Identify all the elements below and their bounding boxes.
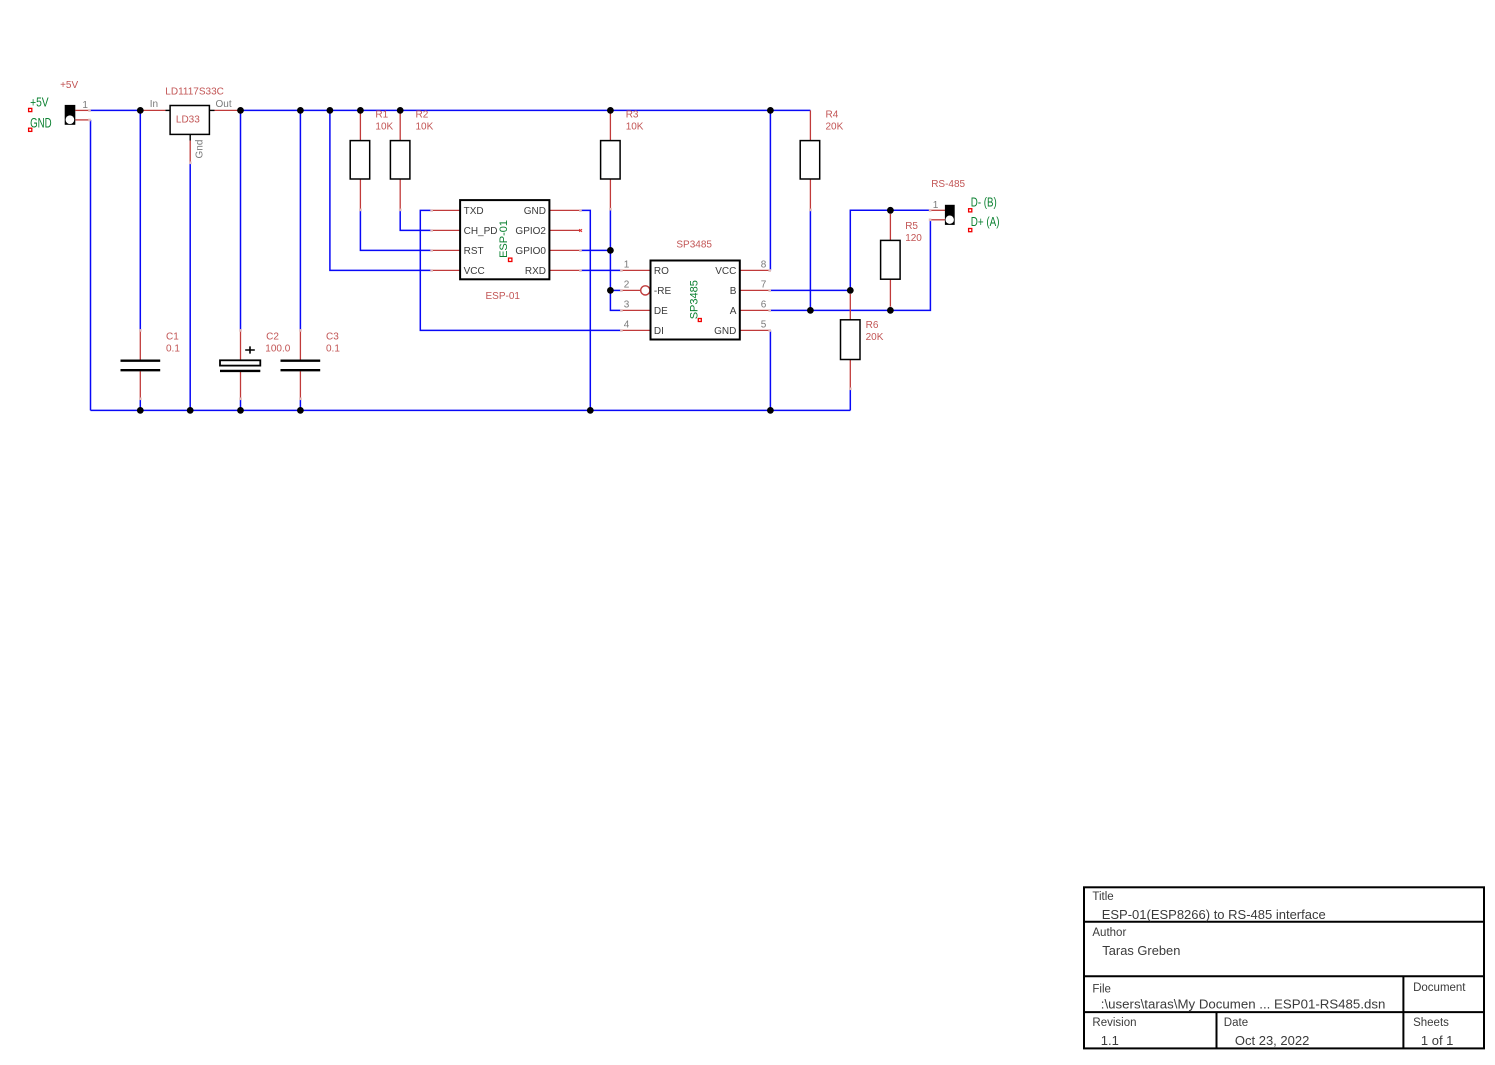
wire R6 bottom to ground rail xyxy=(849,390,851,411)
svg-text:10K: 10K xyxy=(375,122,393,133)
wire C3 bottom lead xyxy=(299,371,301,399)
title block outer frame xyxy=(1084,887,1484,1048)
svg-text:8: 8 xyxy=(761,260,767,271)
svg-text:10K: 10K xyxy=(416,122,434,133)
wire J1 pin1 lead xyxy=(75,109,90,111)
svg-text:RXD: RXD xyxy=(525,266,546,277)
svg-text:R2: R2 xyxy=(416,110,429,121)
svg-text:A: A xyxy=(730,306,737,317)
pin end marker SP B xyxy=(768,289,771,292)
svg-text:GPIO0: GPIO0 xyxy=(515,246,546,257)
svg-text::\users\taras\My Documen ... E: :\users\taras\My Documen ... ESP01-RS485… xyxy=(1101,997,1386,1012)
svg-text:5: 5 xyxy=(761,320,767,331)
wire SP3485 GND pin 5 lead xyxy=(740,329,771,331)
pin end marker LD33 Gnd xyxy=(189,162,192,165)
junction ground rail C3 xyxy=(297,407,304,414)
wire C1 top lead xyxy=(139,330,141,359)
wire C2 top lead xyxy=(240,330,242,360)
IC U3 SP3485 body xyxy=(651,261,740,340)
svg-text:Date: Date xyxy=(1224,1017,1248,1029)
svg-text:10K: 10K xyxy=(626,122,644,133)
pin end marker SP A xyxy=(768,309,771,312)
svg-text:R3: R3 xyxy=(626,110,639,121)
wire C3 bottom stub xyxy=(299,400,301,411)
svg-text:+5V: +5V xyxy=(60,80,78,91)
pin end marker ESP VCC xyxy=(430,269,433,272)
svg-text:LD33: LD33 xyxy=(176,114,200,125)
wire LD33 Gnd down to ground rail xyxy=(189,163,191,410)
svg-text:B: B xyxy=(730,286,737,297)
wire J1 pin2 down to ground rail xyxy=(90,120,92,411)
pin end marker C1a xyxy=(139,329,142,332)
pin end marker SP DI xyxy=(620,329,623,332)
wire ESP RST lead pin xyxy=(432,249,461,251)
wire SP3485 VCC pin 8 lead xyxy=(740,269,771,271)
svg-text:RO: RO xyxy=(654,266,669,277)
wire ESP TXD to SP3485 DI xyxy=(420,210,621,330)
wire C2 top drop xyxy=(240,110,242,330)
svg-text:D+ (A): D+ (A) xyxy=(971,214,1000,229)
pin end marker SP DE xyxy=(620,309,623,312)
svg-text:Author: Author xyxy=(1092,927,1126,939)
net port marker +5V xyxy=(29,108,32,111)
wire RS-485 pin1 lead xyxy=(930,209,945,211)
svg-text:-RE: -RE xyxy=(654,286,672,297)
pin end marker C3b xyxy=(299,398,302,401)
junction GPIO0 node xyxy=(607,247,614,254)
junction A net R5 bottom xyxy=(887,307,894,314)
net port marker D+(A) xyxy=(969,229,972,232)
svg-text:20K: 20K xyxy=(826,122,844,133)
svg-text:LD1117S33C: LD1117S33C xyxy=(165,86,224,97)
connector J1 +5V input xyxy=(65,105,76,125)
wire LD33 Gnd lead xyxy=(189,141,191,164)
svg-text:SP3485: SP3485 xyxy=(676,240,712,251)
wire R2 top lead xyxy=(399,110,401,140)
resistor R3 body xyxy=(601,141,621,179)
svg-text:ESP-01: ESP-01 xyxy=(486,291,521,302)
wire ESP GPIO0 lead pin xyxy=(549,249,580,251)
svg-text:0.1: 0.1 xyxy=(166,343,180,354)
junction top rail at R3 xyxy=(607,107,614,114)
origin marker SP3485 xyxy=(698,319,701,322)
junction B net R6 xyxy=(847,287,854,294)
svg-text:1 of 1: 1 of 1 xyxy=(1421,1033,1454,1048)
wire R4 top lead xyxy=(809,110,811,140)
svg-text:DI: DI xyxy=(654,326,664,337)
wire R1 top lead xyxy=(359,110,361,140)
wire LD33 Out lead xyxy=(215,109,241,111)
pin end marker R1 xyxy=(359,209,362,212)
wire C1 bottom lead xyxy=(139,371,141,399)
resistor R6 body xyxy=(841,320,861,360)
wire R6 top lead xyxy=(849,290,851,319)
svg-text:1: 1 xyxy=(933,200,939,211)
svg-text:R5: R5 xyxy=(905,221,918,232)
svg-text:100.0: 100.0 xyxy=(265,343,290,354)
svg-text:Title: Title xyxy=(1092,891,1113,903)
wire SP3485 DI pin 4 lead xyxy=(621,329,650,331)
unconnected marker x on ESP GPIO2 xyxy=(579,229,582,232)
svg-text:+5V: +5V xyxy=(30,95,49,110)
junction A net R4 xyxy=(807,307,814,314)
wire ground rail bottom xyxy=(91,409,851,411)
junction top rail at C2 xyxy=(237,107,244,114)
pin stub LD33 Out (black) xyxy=(209,109,214,111)
svg-text:20K: 20K xyxy=(866,332,884,343)
svg-text:3: 3 xyxy=(624,300,630,311)
wire SP3485 GND pin5 down to ground rail xyxy=(769,330,771,410)
wire C1 bottom stub xyxy=(139,400,141,411)
junction ground rail SP GND xyxy=(767,407,774,414)
wire SP3485 RO pin 1 lead xyxy=(621,269,650,271)
pin end marker R3 xyxy=(609,208,612,211)
svg-text:R6: R6 xyxy=(866,320,879,331)
svg-text:C1: C1 xyxy=(166,331,179,342)
svg-text:C3: C3 xyxy=(326,331,339,342)
wire R3 bottom down through GPIO0 node to DE xyxy=(610,210,621,311)
inversion bubble on SP3485 -RE pin xyxy=(641,286,650,295)
wire ESP VCC lead pin xyxy=(432,269,461,271)
wire ESP GPIO0 to R3 node xyxy=(581,249,611,251)
wire R5 top lead xyxy=(889,210,891,240)
junction top rail at R2 xyxy=(397,107,404,114)
wire ESP GND lead pin xyxy=(549,209,580,211)
wire SP3485 DE pin 3 lead xyxy=(621,309,650,311)
pin end marker C3a xyxy=(299,329,302,332)
svg-text:C2: C2 xyxy=(266,331,279,342)
svg-text:GPIO2: GPIO2 xyxy=(515,226,546,237)
svg-text:GND: GND xyxy=(30,115,52,130)
junction top rail at C3 xyxy=(297,107,304,114)
svg-text:VCC: VCC xyxy=(715,266,736,277)
wire node to -RE stub xyxy=(610,289,621,291)
svg-text:Out: Out xyxy=(216,99,232,110)
pin end marker C2b xyxy=(239,398,242,401)
svg-text:R4: R4 xyxy=(826,110,839,121)
svg-text:RST: RST xyxy=(464,246,484,257)
wire SP3485 -RE pin 2 lead xyxy=(621,289,640,291)
wire R4 bottom lead xyxy=(809,179,811,210)
svg-text:1: 1 xyxy=(82,100,88,111)
pin end marker C1b xyxy=(139,398,142,401)
pin end marker R4 xyxy=(809,209,812,212)
title block line under Title row xyxy=(1084,921,1484,923)
svg-text:Taras Greben: Taras Greben xyxy=(1102,943,1180,958)
junction ground rail C2 xyxy=(237,407,244,414)
wire R3 top lead xyxy=(609,110,611,140)
wire ESP GND down to ground rail xyxy=(581,210,591,410)
pin end marker ESP GND xyxy=(579,209,582,212)
pin end marker ESP TXD xyxy=(430,209,433,212)
pin end marker RS485-1 xyxy=(929,209,932,212)
pin stub LD33 In (black) xyxy=(166,109,171,111)
wire ESP RXD to SP3485 RO xyxy=(581,269,622,271)
capacitor C3 plates xyxy=(281,361,321,371)
origin marker ESP-01 xyxy=(509,258,512,261)
svg-text:6: 6 xyxy=(761,300,767,311)
pin end marker ESP RST xyxy=(430,249,433,252)
junction top rail at R1 xyxy=(357,107,364,114)
wire R3 bottom lead xyxy=(609,179,611,210)
svg-text:VCC: VCC xyxy=(464,266,485,277)
wire C1 top drop xyxy=(139,110,141,330)
wire ESP RXD lead pin xyxy=(549,269,580,271)
svg-text:GND: GND xyxy=(714,326,736,337)
svg-text:CH_PD: CH_PD xyxy=(464,226,498,237)
wire J1 pin2 lead xyxy=(75,119,90,121)
svg-text:ESP-01(ESP8266) to RS-485 inte: ESP-01(ESP8266) to RS-485 interface xyxy=(1102,907,1326,922)
wire R2 bottom to ESP CH_PD xyxy=(400,210,431,230)
svg-text:DE: DE xyxy=(654,306,668,317)
pin end marker SP -RE xyxy=(620,289,623,292)
pin end marker R5b xyxy=(889,307,892,310)
svg-text:2: 2 xyxy=(624,280,630,291)
svg-text:R1: R1 xyxy=(375,110,388,121)
svg-text:7: 7 xyxy=(761,280,767,291)
junction -RE node xyxy=(607,287,614,294)
pin end marker SP VCC xyxy=(768,269,771,272)
wire ESP TXD lead pin xyxy=(432,209,461,211)
wire B net up and right to RS-485 pin1 xyxy=(850,210,930,290)
svg-text:Revision: Revision xyxy=(1092,1017,1136,1029)
junction top rail at C1 xyxy=(137,107,144,114)
title block line under Author row xyxy=(1084,975,1484,977)
wire C2 bottom lead xyxy=(240,371,242,399)
wire top rail left segment J1 pin1 to LD33 In xyxy=(91,109,141,111)
pin end marker R5a xyxy=(889,212,892,215)
title block divider File/Document xyxy=(1402,976,1404,1048)
title block divider Revision/Date xyxy=(1216,1012,1218,1048)
junction top rail at SP VCC drop xyxy=(767,107,774,114)
junction ground rail LD33 Gnd xyxy=(187,407,194,414)
resistor R5 body xyxy=(881,240,901,279)
junction ground rail ESP GND xyxy=(587,407,594,414)
svg-text:Gnd: Gnd xyxy=(194,140,205,159)
pin end marker ESP CH_PD xyxy=(430,229,433,232)
wire R1 bottom lead xyxy=(359,179,361,210)
regulator U1 LD33 body xyxy=(170,106,209,135)
wire RS-485 pin2 lead xyxy=(930,219,945,221)
wire SP3485 A pin6 to RS-485 pin2 xyxy=(770,220,930,311)
svg-text:1: 1 xyxy=(624,260,630,271)
pin end marker C2a xyxy=(239,329,242,332)
pin end marker SP GND xyxy=(768,329,771,332)
pin end marker J1-2 xyxy=(88,119,91,122)
svg-text:ESP-01: ESP-01 xyxy=(498,220,510,258)
svg-text:4: 4 xyxy=(624,320,630,331)
capacitor C1 plates xyxy=(121,361,161,371)
pin end marker R6a xyxy=(849,292,852,295)
pin end marker J1-1 xyxy=(88,109,91,112)
svg-text:Document: Document xyxy=(1413,982,1466,994)
svg-text:File: File xyxy=(1092,984,1111,996)
resistor R1 body xyxy=(350,141,370,179)
wire SP3485 A pin 6 lead xyxy=(740,309,771,311)
wire R5 bottom lead xyxy=(889,279,891,310)
wire C3 top drop xyxy=(299,110,301,330)
wire +3V3 to ESP VCC xyxy=(330,110,432,270)
IC U2 ESP-01 body xyxy=(460,200,549,279)
connector RS-485 output xyxy=(945,205,955,225)
svg-text:In: In xyxy=(150,99,158,110)
svg-text:0.1: 0.1 xyxy=(326,343,340,354)
svg-text:TXD: TXD xyxy=(464,206,484,217)
wire C2 bottom stub xyxy=(240,400,242,411)
wire ESP GPIO2 lead pin (unconnected) xyxy=(549,229,580,231)
wire R2 bottom lead xyxy=(399,179,401,210)
net port marker GND xyxy=(29,128,32,131)
wire VCC3V3 drop to SP3485 VCC pin8 xyxy=(769,110,771,270)
pin end marker ESP GPIO0 xyxy=(579,249,582,252)
pin end marker RS485-2 xyxy=(929,219,932,222)
wire top rail right segment LD33 Out to R4 xyxy=(241,109,811,111)
svg-text:GND: GND xyxy=(524,206,546,217)
wire R1 bottom to ESP RST xyxy=(360,210,431,250)
net port marker D-(B) xyxy=(969,209,972,212)
resistor R4 body xyxy=(800,141,820,179)
pin end marker ESP RXD xyxy=(579,269,582,272)
junction B net R5 top xyxy=(887,207,894,214)
wire SP3485 B pin7 to node xyxy=(770,289,850,291)
pin stub LD33 Gnd (black) xyxy=(189,134,191,140)
svg-text:1.1: 1.1 xyxy=(1101,1033,1119,1048)
svg-text:Sheets: Sheets xyxy=(1413,1017,1449,1029)
svg-text:RS-485: RS-485 xyxy=(931,179,965,190)
wire ESP CH_PD lead pin xyxy=(432,229,461,231)
resistor R2 body xyxy=(390,141,410,179)
svg-text:SP3485: SP3485 xyxy=(689,280,701,319)
title block line under File row xyxy=(1084,1011,1484,1013)
junction top rail at ESP VCC drop xyxy=(327,107,334,114)
wire R6 bottom lead xyxy=(849,360,851,390)
svg-text:D- (B): D- (B) xyxy=(971,194,997,209)
wire C3 top lead xyxy=(299,330,301,359)
pin end marker SP RO xyxy=(620,269,623,272)
junction ground rail C1 xyxy=(137,407,144,414)
svg-text:Oct 23, 2022: Oct 23, 2022 xyxy=(1235,1033,1309,1048)
wire R4 bottom down to A net xyxy=(809,210,811,310)
wire SP3485 B pin 7 lead xyxy=(740,289,771,291)
pin end marker R2 xyxy=(399,209,402,212)
wire LD33 In lead xyxy=(140,109,165,111)
pin end marker R6b xyxy=(849,388,852,391)
capacitor C2 plates (polarized) xyxy=(220,346,260,371)
svg-text:120: 120 xyxy=(905,233,922,244)
